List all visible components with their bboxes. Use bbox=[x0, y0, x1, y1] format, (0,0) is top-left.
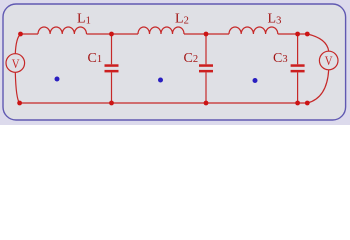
svg-text:C2: C2 bbox=[184, 51, 199, 66]
svg-text:C1: C1 bbox=[88, 51, 103, 66]
svg-text:C3: C3 bbox=[273, 51, 288, 66]
svg-text:V: V bbox=[12, 56, 20, 71]
svg-text:V: V bbox=[325, 53, 333, 68]
